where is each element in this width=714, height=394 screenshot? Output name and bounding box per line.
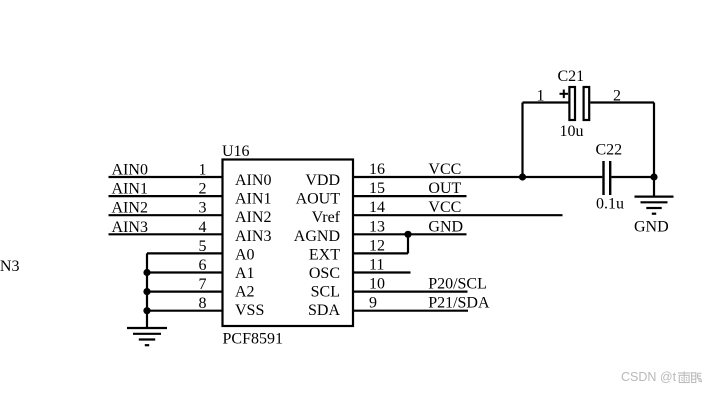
wire pin 16 to VCC net [353,176,602,178]
svg-text:VDD: VDD [305,172,340,189]
capacitor C22 left plate [602,161,604,195]
svg-text:8: 8 [199,295,207,312]
wire pin 9 (SDA) [353,310,468,312]
svg-text:4: 4 [199,219,207,236]
svg-text:A1: A1 [235,265,255,282]
svg-text:Vref: Vref [312,209,341,226]
svg-text:P21/SDA: P21/SDA [428,295,490,312]
svg-text:16: 16 [369,161,385,178]
svg-text:AIN3: AIN3 [235,228,271,245]
svg-text:A0: A0 [235,246,255,263]
wire C21 left branch (vertical from VCC rail) [521,103,523,178]
ground symbol (left, under pins 5-8) [127,328,167,345]
junction pin13/pin12 [404,231,411,238]
svg-text:VSS: VSS [235,302,264,319]
svg-text:1: 1 [199,162,207,179]
wire pin 10 (SCL) [353,291,468,293]
svg-text:PCF8591: PCF8591 [223,331,283,348]
junction pin 8 [143,307,150,314]
wire pin 8 (VSS) [147,310,223,312]
wire vertical pin 12 to pin 13 [407,234,409,253]
junction VCC rail / C21 left [519,173,526,180]
svg-text:OSC: OSC [309,265,340,282]
wire pin 2 (AIN1) [109,195,223,197]
wire pin 4 (AIN3) [109,233,223,235]
svg-text:AGND: AGND [294,228,340,245]
wire ground stem (right) [653,177,655,197]
ground symbol (right) [635,197,674,214]
svg-text:GND: GND [428,218,463,235]
svg-text:A2: A2 [235,284,255,301]
wire pin 6 (A1) [147,271,223,273]
svg-text:C21: C21 [558,68,585,85]
wire pin 7 (A2) [147,291,223,293]
svg-text:P20/SCL: P20/SCL [428,276,487,293]
wire pin 13 (AGND) [353,233,467,235]
IC U16 box [223,160,354,327]
wire pin 12 (EXT) [353,252,408,254]
wire pin 15 (AOUT) [353,195,467,197]
svg-text:10u: 10u [560,123,584,140]
svg-text:15: 15 [369,180,385,197]
svg-text:5: 5 [199,238,207,255]
svg-text:VCC: VCC [428,199,461,216]
svg-text:CSDN @t: CSDN @t [621,370,677,384]
junction pin 6 [143,269,150,276]
junction C22 right / ground [650,173,657,180]
svg-text:SDA: SDA [308,302,340,319]
svg-text:6: 6 [199,257,207,274]
wire C21 right branch (vertical to GND rail) [653,103,655,178]
capacitor C21 left plate [569,87,575,120]
svg-text:10: 10 [369,276,385,293]
wire C21 pin 2 horizontal [590,101,654,103]
wire pin 14 (Vref) [353,214,563,216]
wire pin 11 (OSC) [353,271,411,273]
svg-text:AIN0: AIN0 [235,172,271,189]
svg-text:AIN1: AIN1 [235,191,271,208]
wire pin 3 (AIN2) [109,214,223,216]
svg-text:AIN3: AIN3 [0,258,19,275]
svg-text:SCL: SCL [311,284,340,301]
svg-text:OUT: OUT [428,180,461,197]
capacitor C22 right plate [609,161,611,195]
wire pin 1 (AIN0) [109,176,223,178]
svg-text:2: 2 [199,181,207,198]
svg-text:12: 12 [369,237,385,254]
svg-text:GND: GND [634,219,669,236]
wire vertical bus pins 5-8 to ground [146,253,148,328]
capacitor C21 right plate [584,87,590,120]
C21 polarity plus sign [560,90,569,99]
svg-text:1: 1 [537,88,545,105]
wire C22 right to ground node [611,176,654,178]
svg-text:9: 9 [369,295,377,312]
svg-text:0.1u: 0.1u [596,196,624,213]
wire C21 pin 1 horizontal [523,101,569,103]
svg-text:14: 14 [369,199,385,216]
svg-text:11: 11 [369,257,384,274]
svg-text:U16: U16 [222,143,250,160]
svg-text:AOUT: AOUT [296,191,341,208]
svg-text:VCC: VCC [428,161,461,178]
svg-text:C22: C22 [596,142,623,159]
junction pin 7 [143,288,150,295]
svg-text:AIN2: AIN2 [235,209,271,226]
svg-text:3: 3 [199,200,207,217]
svg-text:7: 7 [199,276,207,293]
svg-text:13: 13 [369,218,385,235]
wire pin 5 (A0) [147,252,223,254]
svg-text:EXT: EXT [309,246,340,263]
